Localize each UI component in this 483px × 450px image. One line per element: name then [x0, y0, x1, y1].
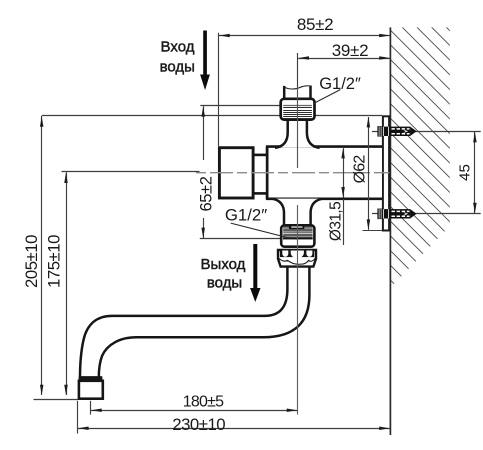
svg-text:Ø62: Ø62 — [352, 155, 369, 184]
handle knob — [219, 148, 253, 198]
svg-text:39±2: 39±2 — [332, 41, 369, 60]
dim 65±2 — [203, 106, 205, 160]
extension line 65 top — [200, 105, 279, 107]
handle neck — [253, 155, 267, 194]
extension line top reference 205 — [42, 115, 382, 117]
svg-text:воды: воды — [207, 275, 242, 292]
svg-text:Вход: Вход — [161, 39, 195, 56]
dim 205±10 — [41, 116, 43, 395]
svg-text:180±5: 180±5 — [183, 393, 224, 410]
svg-text:Ø31,5: Ø31,5 — [328, 202, 345, 241]
svg-text:G1/2″: G1/2″ — [319, 75, 361, 93]
leader G1/2 upper — [314, 90, 341, 104]
dim 180±5 — [91, 410, 297, 412]
svg-text:воды: воды — [160, 59, 195, 76]
svg-text:85±2: 85±2 — [297, 15, 334, 34]
mounting flange — [383, 116, 389, 230]
svg-text:230±10: 230±10 — [172, 415, 225, 434]
svg-text:45: 45 — [457, 164, 474, 181]
svg-text:175±10: 175±10 — [45, 235, 64, 288]
inlet flow arrow — [203, 31, 207, 77]
inlet trumpet fillet — [275, 119, 320, 148]
outlet thread texture — [283, 225, 312, 227]
outlet axis centerline — [297, 205, 299, 415]
aerator box — [79, 381, 103, 399]
outlet trumpet fillet — [272, 199, 323, 226]
svg-text:65±2: 65±2 — [198, 176, 216, 211]
inlet thread block G1/2 — [281, 99, 315, 120]
aerator cap ring — [79, 376, 103, 380]
outlet thread block G1/2 — [281, 225, 314, 246]
leader G1/2 lower — [231, 223, 291, 238]
dim 175±10 — [62, 171, 200, 173]
upper wall screw — [372, 131, 481, 133]
body centerline — [196, 172, 390, 174]
pipe break squiggle — [283, 86, 311, 89]
extension aerator center — [90, 401, 92, 415]
dim 230±10 — [78, 428, 390, 430]
valve body — [267, 148, 382, 198]
wall face line — [389, 27, 391, 435]
dim 45 — [474, 132, 476, 213]
extension line 65 bottom — [200, 238, 285, 240]
dim Ø62 — [368, 117, 370, 230]
svg-text:Выход: Выход — [201, 256, 246, 273]
dim 39±2 — [298, 58, 390, 60]
dim Ø31,5 — [343, 148, 345, 197]
inlet pipe stub — [285, 87, 309, 100]
extension aerator bottom — [34, 399, 79, 401]
spout pipe — [80, 262, 309, 378]
outlet flow arrow — [253, 244, 257, 290]
coupling nut — [278, 250, 316, 267]
svg-text:205±10: 205±10 — [22, 235, 41, 288]
inlet axis centerline — [297, 53, 299, 87]
svg-text:G1/2″: G1/2″ — [225, 206, 267, 225]
dim 85±2 — [218, 33, 220, 146]
extension aerator left — [77, 401, 79, 434]
lower wall screw — [372, 213, 481, 215]
